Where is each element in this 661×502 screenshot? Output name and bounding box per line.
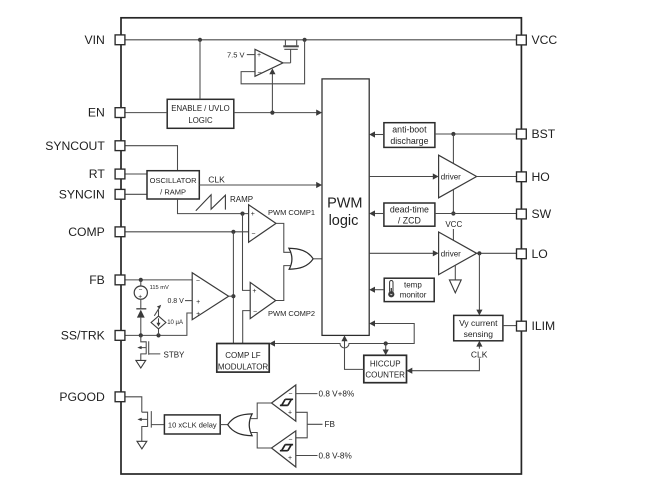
svg-text:LO: LO <box>532 247 548 261</box>
wire regulator output to gate <box>283 62 291 64</box>
svg-text:VCC: VCC <box>532 33 558 47</box>
wire logic box top to VIN rail <box>199 40 201 100</box>
pin RT <box>89 167 125 181</box>
wire anti-boot to BST <box>435 133 517 135</box>
wire comp low output to gate <box>251 433 272 449</box>
svg-text:MODULATOR: MODULATOR <box>218 362 269 371</box>
node COMP junction <box>231 230 235 234</box>
current source 10 uA <box>151 305 183 336</box>
wire COMP down to modulator <box>232 232 234 344</box>
svg-text:SW: SW <box>532 207 552 221</box>
wire hiccup to PWM bottom <box>341 335 363 369</box>
wire SYNCIN to oscillator <box>125 193 147 195</box>
wire SW line <box>435 213 517 215</box>
pin SYNCIN <box>59 187 125 201</box>
driver U5 (LO) <box>439 232 477 275</box>
wire SYNCOUT to oscillator <box>125 146 178 171</box>
wire VIN rail <box>125 39 517 41</box>
COMP LF MODULATOR box <box>217 344 269 373</box>
pin LO <box>517 247 548 261</box>
wire PGOOD pin to MOSFET <box>125 397 142 412</box>
svg-text:SS/TRK: SS/TRK <box>61 329 105 343</box>
ground PGOOD <box>137 441 147 449</box>
pin SYNCOUT <box>45 139 125 153</box>
svg-text:+: + <box>257 52 261 59</box>
wire COMP2 output to OR gate <box>276 266 291 301</box>
svg-text:0.8 V+8%: 0.8 V+8% <box>319 389 355 398</box>
pin ILIM <box>517 319 556 333</box>
svg-text:LOGIC: LOGIC <box>188 116 213 125</box>
dead-time / ZCD box <box>384 203 435 226</box>
node SS junction source <box>156 333 160 337</box>
pin FB <box>89 273 125 287</box>
wire into hiccup top <box>383 344 389 356</box>
label 7.5 V <box>227 50 255 59</box>
svg-text:10 µA: 10 µA <box>167 320 183 326</box>
wire EN pin to logic box <box>125 112 167 114</box>
svg-text:PWM COMP2: PWM COMP2 <box>268 309 315 318</box>
node BST junction <box>451 132 455 136</box>
wire BST to driver top <box>452 134 454 163</box>
pin COMP <box>68 225 125 239</box>
svg-text:+: + <box>288 455 292 462</box>
comparator PGOOD low <box>272 431 296 467</box>
anti-boot discharge box <box>384 123 435 148</box>
svg-text:OSCILLATOR: OSCILLATOR <box>150 176 197 185</box>
PWM logic box <box>322 79 369 336</box>
svg-text:+: + <box>196 311 200 318</box>
wire regulator feedback <box>241 40 305 84</box>
svg-text:+: + <box>288 410 292 417</box>
pass FET Q1 <box>283 40 299 63</box>
transistor STBY MOSFET <box>137 335 185 360</box>
wire temp to PWM arrow <box>369 287 384 293</box>
temp monitor box <box>384 278 434 301</box>
wire comp high output to gate <box>251 403 272 419</box>
wire EN to regulator enable arrow <box>269 68 275 112</box>
svg-text:driver: driver <box>441 173 461 182</box>
wire LO to Vy sensing <box>476 253 482 315</box>
svg-text:FB: FB <box>325 420 336 429</box>
node SS junction diode <box>139 333 143 337</box>
svg-text:monitor: monitor <box>400 290 427 299</box>
ground STBY <box>136 360 146 368</box>
svg-text:BST: BST <box>532 127 556 141</box>
label 0.8 V reference <box>167 298 192 305</box>
node SW junction <box>451 211 455 215</box>
svg-text:STBY: STBY <box>164 350 186 359</box>
wire FB bus <box>296 412 336 438</box>
svg-text:+: + <box>251 211 255 218</box>
wire SS/TRK to error amp <box>125 313 192 335</box>
wire driver to LO pin <box>477 252 517 254</box>
svg-text:7.5 V: 7.5 V <box>227 50 245 59</box>
svg-text:driver: driver <box>441 249 461 258</box>
svg-text:−: − <box>253 308 257 315</box>
svg-text:Vy current: Vy current <box>459 318 498 328</box>
svg-text:ENABLE / UVLO: ENABLE / UVLO <box>171 104 230 113</box>
Vy current sensing box <box>454 315 503 340</box>
pin EN <box>88 106 125 120</box>
wire gate output to delay <box>220 424 228 426</box>
svg-text:HO: HO <box>532 170 550 184</box>
wire driver bottom to SW <box>452 190 454 214</box>
ramp waveform <box>196 195 226 211</box>
wire 0.8V-8% lead <box>296 451 352 460</box>
HICCUP COUNTER box <box>364 355 407 382</box>
svg-text:−: − <box>288 436 292 443</box>
svg-text:COUNTER: COUNTER <box>365 371 405 380</box>
pin SW <box>517 207 552 221</box>
10 xCLK delay box <box>164 415 220 434</box>
transistor PGOOD MOSFET <box>137 411 164 441</box>
svg-text:dead-time: dead-time <box>390 205 429 215</box>
svg-text:discharge: discharge <box>390 136 428 146</box>
wire FB pin to error amp <box>125 279 192 281</box>
comparator PGOOD high <box>272 385 296 421</box>
svg-text:0.8 V: 0.8 V <box>167 298 184 305</box>
svg-text:SYNCIN: SYNCIN <box>59 187 105 201</box>
svg-text:CLK: CLK <box>208 175 225 185</box>
AND gate PGOOD (mirrored) <box>228 414 252 436</box>
wire OR gate to PWM logic <box>313 258 322 260</box>
wire modulator to COMP2 minus <box>243 311 251 344</box>
svg-text:0.8 V-8%: 0.8 V-8% <box>319 451 352 460</box>
svg-text:10 xCLK delay: 10 xCLK delay <box>168 420 217 429</box>
node VIN/EN-logic junction <box>198 38 202 42</box>
node VCC feedback junction <box>303 38 307 42</box>
svg-text:−: − <box>288 391 292 398</box>
wire RAMP to COMP2 plus <box>243 214 251 291</box>
ground LO driver <box>449 265 461 293</box>
svg-text:EN: EN <box>88 106 105 120</box>
svg-text:−: − <box>196 278 200 285</box>
svg-text:+: + <box>252 288 256 295</box>
node error amp output junction <box>231 294 235 298</box>
svg-text:/ RAMP: / RAMP <box>160 187 186 196</box>
error amplifier U3 <box>192 273 228 320</box>
wire CLK to Vy and hiccup <box>407 341 489 374</box>
svg-text:+: + <box>138 293 142 300</box>
wire error amp output <box>229 295 234 297</box>
svg-text:RAMP: RAMP <box>230 195 253 204</box>
node RAMP junction <box>240 212 244 216</box>
wire PWM to LO driver <box>369 250 438 256</box>
svg-text:PWM: PWM <box>327 196 362 212</box>
svg-text:VCC: VCC <box>445 220 462 229</box>
pin PGOOD <box>59 390 124 404</box>
wire 0.8V+8% lead <box>296 389 354 398</box>
svg-text:COMP LF: COMP LF <box>225 351 261 360</box>
svg-text:FB: FB <box>89 273 105 287</box>
svg-text:temp: temp <box>404 281 422 290</box>
svg-text:ILIM: ILIM <box>532 319 556 333</box>
wire restart net to PWM / modulator / hiccup <box>269 320 414 348</box>
pin BST <box>517 127 556 141</box>
comparator PWM COMP2 <box>250 282 315 318</box>
svg-text:CLK: CLK <box>471 349 488 359</box>
op-amp U1 7.5V regulator <box>255 49 283 76</box>
svg-text:RT: RT <box>89 167 106 181</box>
wire EN logic to PWM logic <box>234 110 322 116</box>
wire anti-boot to PWM arrow <box>369 131 384 137</box>
wire RAMP to comparators <box>178 199 249 214</box>
svg-text:COMP: COMP <box>68 225 105 239</box>
wire PWM to HO driver <box>369 173 438 179</box>
svg-text:/ ZCD: / ZCD <box>398 216 421 226</box>
pin VIN <box>84 33 124 47</box>
svg-text:PWM COMP1: PWM COMP1 <box>268 208 315 217</box>
pin VCC <box>517 33 558 47</box>
svg-text:anti-boot: anti-boot <box>392 125 427 135</box>
node FB junction <box>139 278 143 282</box>
wire dead-time to PWM arrow <box>369 210 384 216</box>
svg-text:115 mV: 115 mV <box>150 285 169 291</box>
diode D1 <box>136 309 146 336</box>
pin SS/TRK <box>61 329 125 343</box>
comparator PWM COMP1 <box>249 205 315 243</box>
svg-text:+: + <box>196 299 200 306</box>
wire COMP1 output to OR gate <box>276 223 290 252</box>
svg-text:logic: logic <box>329 213 359 229</box>
svg-text:−: − <box>251 231 255 238</box>
wire COMP pin to PWM COMP1 <box>125 231 249 233</box>
node hiccup top junction <box>384 341 388 345</box>
source 115 mV offset <box>134 280 169 309</box>
svg-text:VIN: VIN <box>84 33 104 47</box>
pin HO <box>517 170 550 184</box>
IC outer boundary <box>121 18 521 474</box>
svg-text:PGOOD: PGOOD <box>59 390 105 404</box>
node LO junction <box>477 251 481 255</box>
label VCC driver supply <box>445 220 462 240</box>
svg-text:HICCUP: HICCUP <box>370 359 401 368</box>
svg-text:sensing: sensing <box>464 329 494 339</box>
wire driver to HO pin <box>477 176 517 178</box>
svg-text:−: − <box>257 69 261 76</box>
wire CLK to PWM logic <box>199 175 322 189</box>
OSCILLATOR / RAMP box <box>147 171 199 199</box>
wire RT to oscillator <box>125 173 147 175</box>
driver U4 (HO) <box>439 155 477 198</box>
OR gate U2 <box>289 248 313 269</box>
svg-text:SYNCOUT: SYNCOUT <box>45 139 105 153</box>
ENABLE / UVLO LOGIC box <box>167 99 234 128</box>
wire Vy to ILIM pin <box>503 325 517 327</box>
